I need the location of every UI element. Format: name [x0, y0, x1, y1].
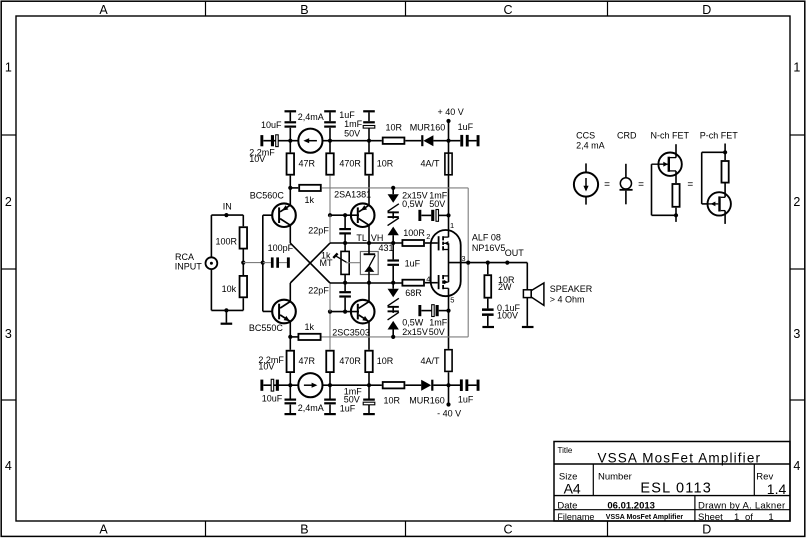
svg-text:=: =	[638, 180, 644, 191]
svg-text:06.01.2013: 06.01.2013	[607, 500, 655, 511]
svg-text:B: B	[300, 523, 308, 537]
svg-text:NP16V5: NP16V5	[472, 243, 506, 253]
svg-text:1k: 1k	[305, 195, 315, 205]
svg-text:2,4mA: 2,4mA	[298, 403, 324, 413]
svg-text:1: 1	[734, 512, 739, 523]
svg-text:10uF: 10uF	[261, 120, 282, 130]
svg-text:Number: Number	[598, 472, 632, 483]
svg-text:470R: 470R	[339, 158, 361, 168]
svg-text:TL: TL	[356, 233, 367, 243]
svg-text:3: 3	[5, 327, 12, 341]
svg-text:10V: 10V	[249, 154, 265, 164]
svg-text:50V: 50V	[429, 327, 445, 337]
svg-text:N-ch FET: N-ch FET	[651, 131, 690, 141]
svg-text:A: A	[99, 3, 108, 17]
svg-text:1uF: 1uF	[458, 122, 474, 132]
svg-text:0,5W: 0,5W	[402, 199, 424, 209]
svg-text:2SC3503: 2SC3503	[332, 328, 370, 338]
svg-text:=: =	[687, 180, 693, 191]
svg-text:0,5W: 0,5W	[402, 318, 424, 328]
svg-text:2W: 2W	[498, 282, 512, 292]
svg-text:A: A	[99, 523, 108, 537]
svg-text:10R: 10R	[384, 396, 401, 406]
svg-text:- 40 V: - 40 V	[437, 408, 461, 418]
svg-text:4A/T: 4A/T	[421, 356, 441, 366]
svg-text:B: B	[300, 3, 308, 17]
svg-text:VSSA MosFet Amplifier: VSSA MosFet Amplifier	[597, 451, 761, 466]
svg-text:2: 2	[426, 232, 430, 241]
svg-text:431: 431	[379, 243, 394, 253]
svg-text:> 4 Ohm: > 4 Ohm	[550, 294, 585, 304]
svg-text:1: 1	[450, 221, 454, 230]
svg-text:10R: 10R	[377, 356, 394, 366]
svg-text:100V: 100V	[497, 310, 518, 320]
svg-text:50V: 50V	[344, 395, 360, 405]
svg-text:1.4: 1.4	[767, 481, 787, 497]
svg-text:47R: 47R	[299, 356, 316, 366]
svg-text:10V: 10V	[258, 362, 274, 372]
svg-text:10R: 10R	[377, 158, 394, 168]
svg-text:C: C	[503, 523, 512, 537]
svg-text:SPEAKER: SPEAKER	[550, 284, 593, 294]
svg-text:1uF: 1uF	[458, 395, 474, 405]
svg-text:3: 3	[461, 254, 465, 263]
svg-text:+ 40 V: + 40 V	[438, 107, 464, 117]
svg-text:P-ch FET: P-ch FET	[700, 131, 739, 141]
svg-text:MUR160: MUR160	[409, 396, 445, 406]
svg-text:1: 1	[768, 512, 773, 523]
svg-text:RCA: RCA	[175, 252, 194, 262]
svg-text:MUR160: MUR160	[410, 122, 446, 132]
svg-text:A4: A4	[564, 481, 581, 497]
svg-text:ALF 08: ALF 08	[472, 232, 501, 242]
svg-text:100R: 100R	[216, 237, 238, 247]
svg-text:1k: 1k	[305, 322, 315, 332]
svg-text:2x15V: 2x15V	[402, 327, 428, 337]
svg-text:Filename: Filename	[557, 512, 594, 522]
svg-text:D: D	[702, 3, 711, 17]
svg-text:BC560C: BC560C	[250, 191, 285, 201]
svg-text:2: 2	[5, 195, 12, 209]
svg-text:MT: MT	[320, 258, 333, 268]
svg-text:ESL 0113: ESL 0113	[640, 480, 712, 496]
svg-text:2,4 mA: 2,4 mA	[576, 140, 605, 150]
svg-text:1: 1	[793, 61, 800, 75]
svg-text:Title: Title	[558, 446, 573, 455]
svg-text:4: 4	[793, 459, 800, 473]
svg-text:10uF: 10uF	[262, 393, 283, 403]
svg-text:4: 4	[5, 459, 12, 473]
svg-text:INPUT: INPUT	[175, 262, 203, 272]
svg-text:1uF: 1uF	[340, 403, 356, 413]
svg-text:Drawn by A. Lakner: Drawn by A. Lakner	[698, 500, 785, 511]
svg-text:47R: 47R	[299, 158, 316, 168]
svg-text:100R: 100R	[403, 228, 425, 238]
svg-text:50V: 50V	[344, 129, 360, 139]
svg-text:22pF: 22pF	[308, 225, 329, 235]
svg-text:Sheet: Sheet	[698, 512, 723, 523]
svg-text:IN: IN	[223, 201, 232, 211]
svg-text:1uF: 1uF	[405, 259, 421, 269]
svg-text:VH: VH	[371, 233, 384, 243]
svg-text:=: =	[604, 180, 610, 191]
svg-text:OUT: OUT	[505, 248, 525, 258]
svg-text:BC550C: BC550C	[249, 323, 284, 333]
svg-text:C: C	[503, 3, 512, 17]
svg-text:4A/T: 4A/T	[421, 158, 441, 168]
svg-text:22pF: 22pF	[308, 285, 329, 295]
svg-text:2,4mA: 2,4mA	[298, 112, 324, 122]
svg-text:1: 1	[5, 61, 12, 75]
svg-text:VSSA MosFet Amplifier: VSSA MosFet Amplifier	[606, 514, 684, 521]
svg-text:4: 4	[426, 274, 430, 283]
svg-text:5: 5	[450, 295, 454, 304]
svg-text:of: of	[745, 512, 753, 523]
svg-text:10R: 10R	[386, 122, 403, 132]
svg-text:50V: 50V	[429, 199, 445, 209]
svg-text:68R: 68R	[405, 288, 422, 298]
svg-text:2: 2	[793, 195, 800, 209]
svg-text:3: 3	[793, 327, 800, 341]
svg-text:1mF: 1mF	[429, 318, 448, 328]
svg-text:D: D	[702, 523, 711, 537]
svg-text:2SA1381: 2SA1381	[334, 189, 371, 199]
svg-text:100pF: 100pF	[268, 243, 294, 253]
svg-text:470R: 470R	[339, 356, 361, 366]
svg-text:CCS: CCS	[576, 131, 595, 141]
svg-text:Date: Date	[557, 500, 577, 511]
svg-text:CRD: CRD	[617, 131, 637, 141]
svg-text:10k: 10k	[222, 284, 237, 294]
